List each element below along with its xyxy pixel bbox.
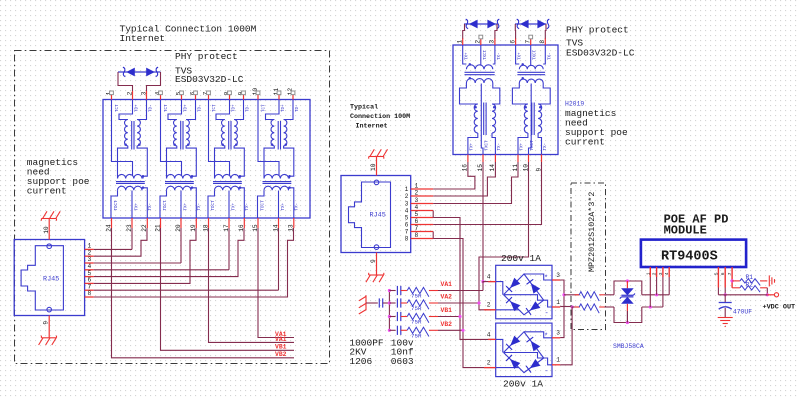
- svg-text:Internet: Internet: [120, 33, 166, 44]
- svg-text:TX+: TX+: [282, 202, 286, 210]
- svg-text:1206: 1206: [349, 356, 372, 367]
- svg-text:TD-: TD-: [296, 104, 300, 112]
- svg-text:2: 2: [487, 302, 491, 309]
- svg-text:TX+: TX+: [470, 142, 474, 150]
- svg-text:10: 10: [370, 163, 377, 171]
- svg-text:2: 2: [415, 190, 419, 197]
- svg-text:current: current: [565, 136, 605, 147]
- svg-text:Connection 100M: Connection 100M: [350, 113, 410, 121]
- svg-text:+VDC OUT: +VDC OUT: [763, 304, 796, 312]
- svg-text:470UF: 470UF: [733, 309, 752, 316]
- svg-text:4: 4: [405, 208, 409, 215]
- svg-text:TX+: TX+: [466, 52, 470, 60]
- svg-text:2: 2: [405, 193, 409, 200]
- svg-text:9: 9: [43, 321, 50, 325]
- svg-text:6: 6: [405, 222, 409, 229]
- svg-text:TX+: TX+: [136, 202, 140, 210]
- svg-text:TX-: TX-: [198, 203, 202, 211]
- svg-text:200v 1A: 200v 1A: [501, 253, 541, 264]
- svg-text:RT9400S: RT9400S: [661, 250, 718, 265]
- svg-text:8: 8: [415, 232, 419, 239]
- svg-text:ESD03V32D-LC: ESD03V32D-LC: [566, 48, 635, 59]
- svg-text:1: 1: [645, 272, 651, 275]
- svg-text:TX-: TX-: [498, 143, 502, 151]
- svg-text:4: 4: [664, 272, 670, 275]
- svg-text:PHY protect: PHY protect: [566, 25, 629, 36]
- svg-text:VA1: VA1: [275, 336, 287, 343]
- svg-text:MPZ2012S102A*3*2: MPZ2012S102A*3*2: [587, 192, 597, 272]
- svg-text:TX+: TX+: [521, 142, 525, 150]
- svg-text:4: 4: [415, 204, 419, 211]
- svg-text:TXCT: TXCT: [486, 140, 490, 151]
- svg-text:3: 3: [556, 329, 560, 336]
- svg-text:TXCT: TXCT: [484, 49, 488, 60]
- svg-text:7: 7: [405, 229, 409, 236]
- svg-text:-: -: [545, 368, 549, 376]
- svg-text:R1: R1: [746, 274, 754, 281]
- svg-text:75R: 75R: [411, 305, 422, 312]
- svg-text:TCT: TCT: [165, 104, 169, 112]
- svg-text:3: 3: [658, 272, 664, 275]
- svg-text:VA2: VA2: [441, 294, 453, 301]
- svg-text:5: 5: [415, 211, 419, 218]
- svg-text:8: 8: [539, 40, 546, 44]
- svg-text:TD-: TD-: [150, 104, 154, 112]
- svg-text:RJ45: RJ45: [370, 212, 386, 220]
- svg-text:TD+: TD+: [136, 104, 140, 112]
- svg-text:6: 6: [415, 218, 419, 225]
- svg-text:TDCT: TDCT: [212, 200, 216, 211]
- svg-text:TX-: TX-: [544, 143, 548, 151]
- svg-text:200v 1A: 200v 1A: [503, 379, 543, 390]
- svg-text:VB2: VB2: [275, 351, 287, 358]
- svg-text:3: 3: [489, 40, 496, 44]
- svg-text:TXCT: TXCT: [531, 140, 535, 151]
- svg-text:MODULE: MODULE: [664, 224, 707, 238]
- svg-text:4: 4: [487, 273, 491, 280]
- svg-text:6: 6: [509, 40, 516, 44]
- svg-text:3: 3: [556, 272, 560, 279]
- svg-text:VB1: VB1: [275, 344, 287, 351]
- svg-text:Internet: Internet: [356, 123, 388, 131]
- svg-text:TCT: TCT: [263, 104, 267, 112]
- svg-text:VA1: VA1: [441, 281, 453, 288]
- svg-text:TD+: TD+: [233, 104, 237, 112]
- svg-text:9: 9: [370, 259, 377, 263]
- svg-text:TX-: TX-: [498, 52, 502, 60]
- svg-text:TD-: TD-: [199, 104, 203, 112]
- svg-text:1: 1: [457, 40, 464, 44]
- svg-text:75R: 75R: [411, 319, 422, 326]
- svg-text:5: 5: [405, 215, 409, 222]
- svg-text:1: 1: [556, 357, 560, 364]
- svg-text:TDCT: TDCT: [115, 200, 119, 211]
- svg-text:TX+: TX+: [519, 52, 523, 60]
- svg-text:TX+: TX+: [185, 202, 189, 210]
- svg-text:TCT: TCT: [116, 104, 120, 112]
- svg-text:3: 3: [415, 197, 419, 204]
- svg-text:-: -: [545, 310, 549, 318]
- svg-text:TD+: TD+: [282, 104, 286, 112]
- svg-text:R2: R2: [746, 281, 754, 288]
- svg-text:7: 7: [415, 225, 419, 232]
- svg-text:7: 7: [525, 40, 532, 44]
- svg-text:Typical: Typical: [350, 104, 378, 112]
- svg-text:PHY protect: PHY protect: [175, 51, 238, 62]
- svg-text:TD+: TD+: [185, 104, 189, 112]
- svg-text:0603: 0603: [391, 356, 414, 367]
- svg-text:4: 4: [487, 331, 491, 338]
- svg-text:RJ45: RJ45: [43, 276, 59, 284]
- svg-text:TX-: TX-: [149, 203, 153, 211]
- svg-text:75R: 75R: [411, 293, 422, 300]
- svg-text:current: current: [27, 186, 67, 197]
- svg-text:TX+: TX+: [233, 202, 237, 210]
- svg-text:TDCT: TDCT: [262, 200, 266, 211]
- svg-text:TX-: TX-: [246, 203, 250, 211]
- svg-text:TDCT: TDCT: [164, 200, 168, 211]
- svg-text:1: 1: [415, 183, 419, 190]
- svg-text:ESD03V32D-LC: ESD03V32D-LC: [175, 74, 244, 85]
- svg-text:*: *: [544, 333, 548, 341]
- svg-text:1: 1: [405, 186, 409, 193]
- svg-text:H2019: H2019: [565, 101, 584, 108]
- svg-text:1: 1: [556, 299, 560, 306]
- svg-text:TCT: TCT: [213, 104, 217, 112]
- svg-text:3: 3: [405, 201, 409, 208]
- svg-text:2: 2: [475, 40, 482, 44]
- svg-text:VB1: VB1: [441, 307, 453, 314]
- svg-text:*: *: [544, 275, 548, 283]
- svg-text:2: 2: [652, 272, 658, 275]
- svg-text:8: 8: [88, 290, 92, 297]
- svg-text:TX-: TX-: [296, 203, 300, 211]
- svg-text:TXCT: TXCT: [534, 49, 538, 60]
- svg-text:2: 2: [487, 360, 491, 367]
- svg-text:TX-: TX-: [548, 52, 552, 60]
- svg-text:10: 10: [43, 226, 50, 234]
- svg-text:TD-: TD-: [247, 104, 251, 112]
- svg-text:SMBJ58CA: SMBJ58CA: [613, 343, 644, 350]
- svg-text:8: 8: [405, 236, 409, 243]
- svg-text:VB2: VB2: [441, 321, 453, 328]
